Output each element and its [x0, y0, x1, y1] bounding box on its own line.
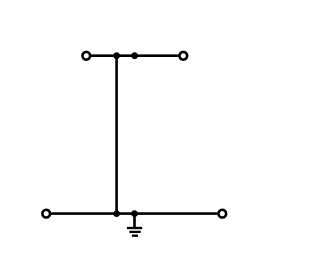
terminal circle top-right	[179, 52, 187, 60]
wire vertical bus	[115, 56, 118, 214]
junction bottom at vertical bus	[113, 210, 120, 217]
wire ground stem	[133, 214, 136, 228]
ground symbol bar 3	[132, 235, 138, 237]
wire top horizontal	[86, 54, 183, 57]
junction bottom at ground tap	[131, 210, 138, 217]
ground symbol bar 1	[127, 227, 142, 229]
ground symbol bar 2	[129, 231, 140, 233]
junction top second	[131, 52, 138, 59]
junction top at vertical bus	[113, 52, 120, 59]
wire bottom horizontal	[46, 212, 222, 215]
terminal circle bottom-left	[42, 210, 50, 218]
terminal circle bottom-right	[218, 210, 226, 218]
terminal circle top-left	[82, 52, 90, 60]
